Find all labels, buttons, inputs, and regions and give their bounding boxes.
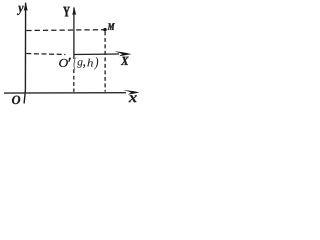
node M: label M	[108, 23, 115, 30]
node O': coordinate label (g, h)	[74, 57, 99, 70]
wire: dashed horizontal from y-axis to origin O'	[26, 54, 65, 55]
wire: main x-axis arrowhead	[124, 90, 140, 95]
wire: dashed vertical from point M down to x-axis	[104, 31, 106, 91]
node x: axis label x	[129, 95, 137, 102]
wire: secondary Y-axis arrowhead	[72, 7, 76, 15]
wire: secondary X-axis line	[74, 53, 119, 56]
wire: secondary Y-axis line	[73, 8, 75, 60]
wire: main y-axis line	[24, 3, 26, 104]
node Y: axis label Y	[63, 7, 69, 17]
node O': prime mark	[68, 58, 71, 62]
node O': origin label O	[59, 59, 68, 67]
node O: origin label O	[12, 96, 20, 105]
wire: main y-axis arrowhead	[24, 2, 28, 11]
wire: dashed horizontal from y-axis to point M	[26, 29, 104, 32]
node M: point marker dot	[103, 28, 106, 31]
node y: axis label y	[17, 6, 24, 15]
wire: dashed vertical from O' down to x-axis	[73, 69, 75, 92]
wire: main x-axis line	[4, 92, 126, 94]
node X: axis label X	[121, 57, 129, 65]
wire: secondary X-axis arrowhead	[115, 51, 132, 56]
